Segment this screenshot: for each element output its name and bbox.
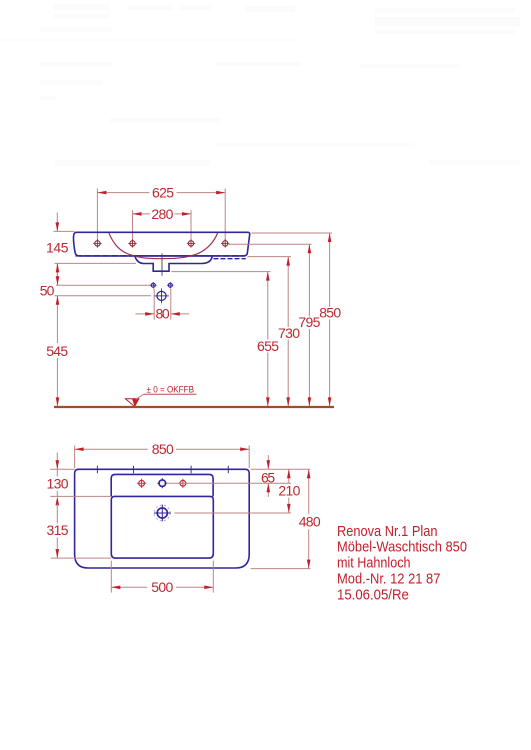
svg-text:mit Hahnloch: mit Hahnloch xyxy=(337,555,411,572)
svg-text:210: 210 xyxy=(278,482,300,498)
extension line left of dim 80 xyxy=(153,289,155,320)
reference line ledge holes to dim 65/210 xyxy=(167,482,292,484)
reference line holes row to dim 795 xyxy=(229,243,312,245)
svg-text:65: 65 xyxy=(261,470,275,486)
dimension 210 xyxy=(278,469,300,513)
wall hole tick 4 plan xyxy=(227,466,229,474)
reference line hull underside left xyxy=(55,262,137,264)
dimension 850 vertical xyxy=(319,233,341,406)
bowl profile arc (hidden line) xyxy=(109,233,218,259)
svg-text:130: 130 xyxy=(47,476,69,492)
basin bottom edge (dashed) xyxy=(76,255,246,257)
svg-text:15.06.05/Re: 15.06.05/Re xyxy=(337,586,409,603)
level marker triangle OKFFB xyxy=(125,394,143,406)
ledge hole right (red) xyxy=(178,479,187,488)
dimension 850 plan xyxy=(75,441,250,457)
svg-text:480: 480 xyxy=(299,513,321,529)
wall hole 4 front xyxy=(221,239,229,247)
extension line right of dim 80 xyxy=(170,289,172,320)
label 0 = OKFFB xyxy=(144,385,197,395)
extension line left of dim 500 xyxy=(110,561,112,593)
ledge hole left (red) xyxy=(137,479,146,488)
hull hidden edge right (dashed) xyxy=(214,258,246,260)
svg-text:Renova Nr.1 Plan: Renova Nr.1 Plan xyxy=(337,523,438,540)
dimension 65 xyxy=(261,455,275,497)
svg-text:280: 280 xyxy=(151,206,173,222)
svg-text:Mod.-Nr. 12 21 87: Mod.-Nr. 12 21 87 xyxy=(337,571,440,588)
dimension 730 xyxy=(278,257,300,407)
dimension 280 xyxy=(133,206,192,222)
extension line right of dim 280 (hole 3) xyxy=(190,210,192,240)
reference line plan bottom edge right xyxy=(251,568,311,570)
wall hole 2 front xyxy=(128,239,136,247)
dimension 500 xyxy=(111,579,213,595)
wall hole 1 front xyxy=(93,239,101,247)
svg-text:145: 145 xyxy=(46,239,69,255)
drain centerline xyxy=(161,253,163,275)
svg-text:500: 500 xyxy=(151,579,173,595)
svg-text:655: 655 xyxy=(257,338,279,354)
reference line bowl top left xyxy=(50,495,111,497)
svg-text:730: 730 xyxy=(278,325,300,341)
bowl outline plan xyxy=(111,496,213,558)
extension line left of dim 625 (hole 1) xyxy=(96,189,98,241)
ledge hole middle (blue) xyxy=(157,478,167,488)
svg-text:850: 850 xyxy=(152,441,174,457)
faint ghost marks top xyxy=(0,4,520,167)
svg-text:795: 795 xyxy=(298,314,320,330)
fixing hole right xyxy=(167,282,173,288)
dimension 655 xyxy=(257,272,279,407)
reference line basin bottom to dim 730 xyxy=(248,256,292,258)
dimension 50 xyxy=(40,263,60,298)
basin outline plan xyxy=(75,469,250,568)
svg-text:80: 80 xyxy=(156,306,170,322)
svg-text:315: 315 xyxy=(47,522,69,538)
basin outline front xyxy=(73,232,249,256)
drain hole circle xyxy=(154,289,169,304)
floor line xyxy=(54,406,334,408)
tap ledge outline plan xyxy=(111,474,213,496)
reference line drain bottom to dim 655 xyxy=(171,271,270,273)
title text block xyxy=(337,523,467,604)
reference line fixing holes left xyxy=(56,284,151,286)
dimension 130 xyxy=(47,453,69,506)
dimension 80 xyxy=(136,306,190,322)
extension line right of dim 500 xyxy=(212,561,214,593)
wall hole 3 front xyxy=(187,239,195,247)
dimension 545 xyxy=(46,296,68,407)
extension line right of dim 850 plan xyxy=(248,446,250,469)
svg-text:545: 545 xyxy=(46,343,68,359)
reference line plan top edge left xyxy=(50,468,75,470)
svg-text:50: 50 xyxy=(40,282,55,298)
dimension 480 xyxy=(299,469,321,568)
svg-text:Möbel-Waschtisch 850: Möbel-Waschtisch 850 xyxy=(337,539,467,556)
svg-text:850: 850 xyxy=(319,304,341,320)
faucet hole plan xyxy=(154,505,171,522)
basin underside hull xyxy=(135,256,212,271)
reference line plan top edge right xyxy=(251,468,311,470)
extension line left of dim 280 (hole 2) xyxy=(132,210,134,240)
dimension 795 xyxy=(298,244,320,406)
dimension 145 xyxy=(46,213,69,280)
reference line drain circle left xyxy=(55,295,152,297)
wall hole tick 3 plan xyxy=(190,466,192,474)
reference line top edge to dim 850 xyxy=(252,232,333,234)
reference line faucet hole to dim 210 xyxy=(175,512,292,514)
wall hole tick 1 plan xyxy=(96,466,98,474)
extension line left of dim 850 plan xyxy=(74,446,76,469)
fixing hole left xyxy=(150,282,156,288)
extension line right of dim 625 (hole 4) xyxy=(224,189,226,241)
wall hole tick 2 plan xyxy=(133,466,135,474)
dimension 315 xyxy=(47,504,69,558)
reference line bowl bottom left xyxy=(51,557,112,559)
svg-text:± 0 = OKFFB: ± 0 = OKFFB xyxy=(147,385,195,395)
dimension 625 xyxy=(97,185,225,201)
svg-text:625: 625 xyxy=(152,185,174,201)
reference line basin top edge left xyxy=(54,230,75,232)
